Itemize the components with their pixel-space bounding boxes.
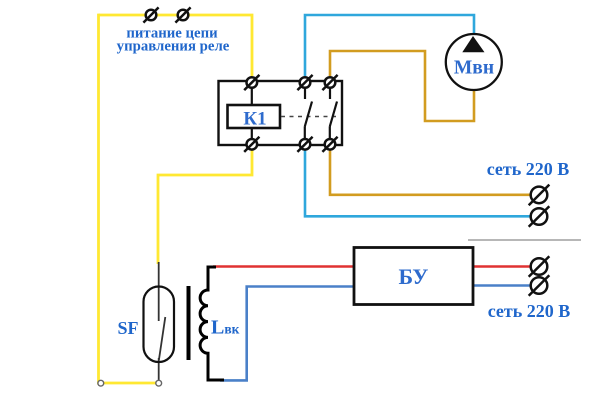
svg-text:Мвн: Мвн	[454, 58, 494, 79]
svg-text:управления реле: управления реле	[117, 39, 230, 55]
svg-text:SF: SF	[117, 318, 138, 338]
svg-text:сеть 220 В: сеть 220 В	[488, 301, 571, 321]
svg-text:К1: К1	[243, 109, 266, 130]
svg-text:сеть 220 В: сеть 220 В	[487, 159, 570, 179]
svg-text:БУ: БУ	[399, 264, 429, 289]
